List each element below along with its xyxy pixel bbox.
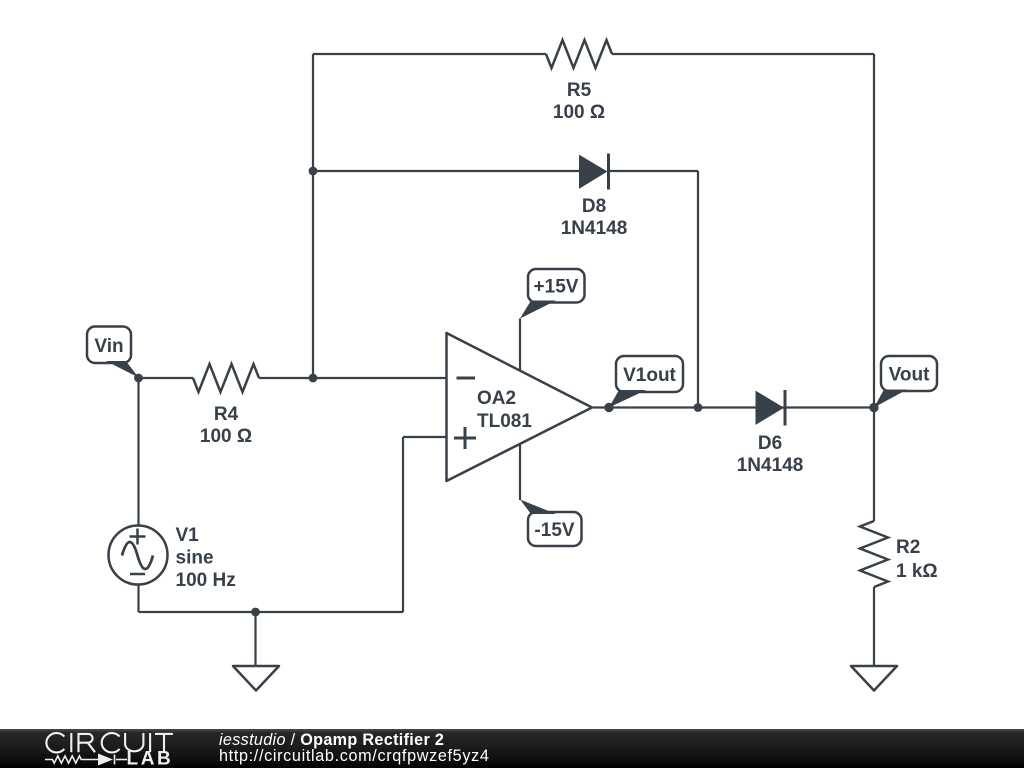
wire ground stem left: [254, 612, 256, 666]
svg-text:+15V: +15V: [534, 277, 579, 298]
wire op-amp non-inverting input stub: [403, 436, 447, 438]
ground right: [851, 666, 897, 691]
wire non-inverting input vertical: [402, 437, 404, 612]
wire left vertical from R5 to inverting input node: [312, 54, 314, 378]
voltage source V1: [109, 526, 168, 585]
svg-text:LAB: LAB: [127, 749, 174, 768]
svg-text:1N4148: 1N4148: [737, 455, 804, 476]
diode D6: [756, 390, 785, 426]
svg-text:1 kΩ: 1 kΩ: [896, 561, 938, 582]
CircuitLab logo CIRCUIT (drawn thin letters), y offset: svg top=729 so local y = abs-729: [46, 733, 173, 752]
svg-text:TL081: TL081: [477, 411, 532, 432]
footer title: [219, 732, 444, 748]
wire op-amp output to Vout: [592, 406, 874, 408]
node Vin callout: [87, 327, 139, 378]
wire R2 to right ground: [873, 587, 875, 666]
resistor R4: [193, 364, 259, 392]
CircuitLab logo circuit glyph: [45, 755, 127, 765]
junction dot Vout node: [869, 403, 878, 412]
junction dot D8 branch: [309, 167, 318, 176]
wire right vertical from R5 to Vout node: [873, 54, 875, 408]
resistor R2: [860, 521, 888, 587]
svg-text:100 Ω: 100 Ω: [200, 426, 252, 447]
wire V1 bottom: [137, 585, 139, 613]
svg-text:100 Ω: 100 Ω: [553, 102, 605, 123]
junction dot Vin node: [134, 374, 143, 383]
op-amp OA2: [447, 333, 593, 481]
svg-text:Vin: Vin: [94, 336, 123, 357]
svg-text:R5: R5: [567, 80, 592, 101]
CircuitLab logo: [0, 729, 220, 768]
op-amp OA2 labels: [477, 388, 532, 432]
svg-text:V1: V1: [176, 525, 200, 546]
svg-text:1N4148: 1N4148: [561, 218, 628, 239]
wire R4 to op-amp inverting input: [259, 377, 447, 379]
svg-text:D8: D8: [582, 196, 606, 217]
svg-text:sine: sine: [176, 548, 214, 569]
footer url: [219, 748, 490, 764]
resistor R4 labels: [200, 404, 252, 447]
svg-text:R4: R4: [214, 404, 239, 425]
resistor R5 labels: [553, 80, 605, 123]
wire D8 cathode: [608, 170, 698, 172]
voltage source V1 labels: [176, 525, 236, 591]
diode D8 labels: [561, 196, 628, 239]
wire top feedback right: [612, 53, 874, 55]
svg-text:R2: R2: [896, 537, 920, 558]
ground left: [233, 666, 279, 691]
wire Vin node to V1 top: [137, 378, 139, 526]
diode D6 labels: [737, 433, 804, 476]
node Vout callout: [874, 356, 937, 408]
svg-text:100 Hz: 100 Hz: [176, 570, 236, 591]
resistor R2 labels: [896, 537, 938, 582]
wire bottom ground rail: [139, 611, 404, 613]
resistor R5: [546, 40, 612, 68]
svg-text:OA2: OA2: [477, 388, 516, 409]
junction dot inverting input node: [309, 374, 318, 383]
wire -15V supply: [519, 443, 521, 500]
svg-text:D6: D6: [758, 433, 782, 454]
wire top feedback left: [313, 53, 546, 55]
wire D8 anode: [313, 170, 580, 172]
wire +15V supply: [519, 319, 521, 372]
svg-text:-15V: -15V: [534, 520, 574, 541]
junction dot op-amp output: [604, 403, 613, 412]
junction dot D8 return: [694, 403, 703, 412]
node V1out callout: [609, 356, 683, 408]
node +15V callout: [520, 269, 585, 319]
diode D8: [580, 154, 609, 190]
svg-text:V1out: V1out: [623, 365, 676, 386]
svg-text:Vout: Vout: [889, 365, 930, 386]
wire D8 drop to output node: [697, 171, 699, 408]
wire Vin to R4: [139, 377, 194, 379]
node -15V callout: [520, 500, 582, 547]
wire Vout node to R2: [873, 408, 875, 522]
junction dot ground rail: [251, 608, 260, 617]
footer bar: [0, 729, 1024, 768]
